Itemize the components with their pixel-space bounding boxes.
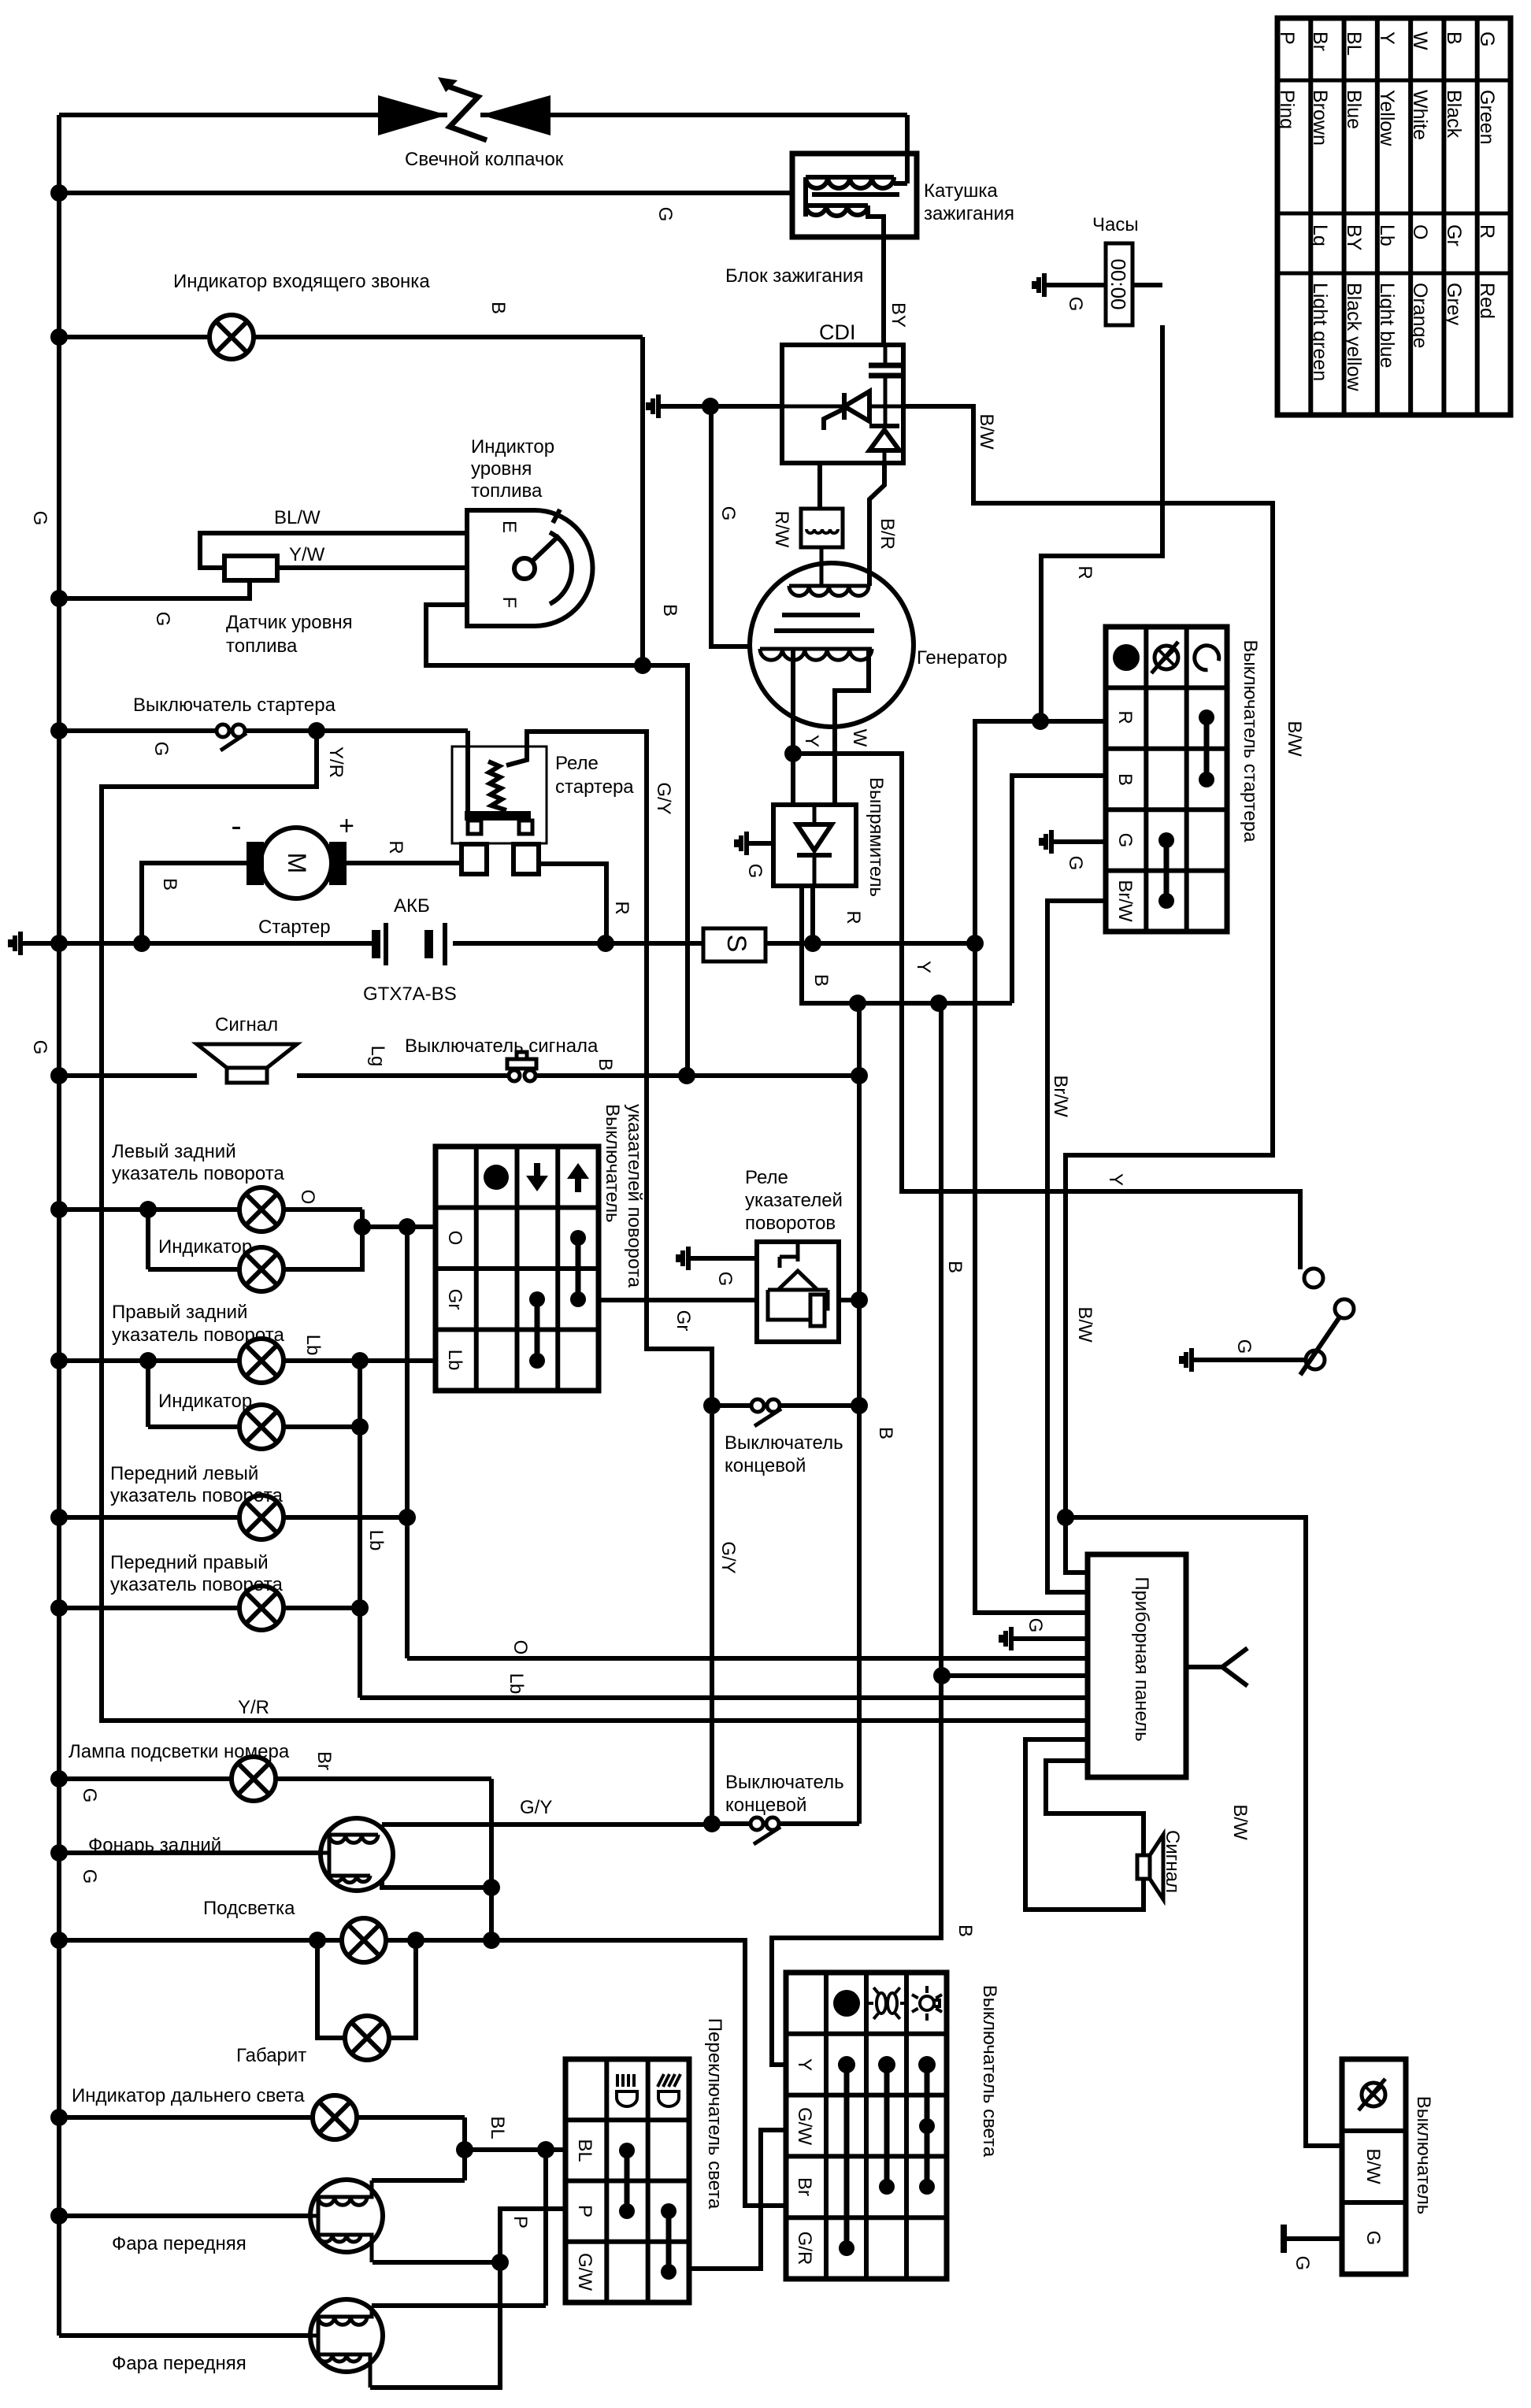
svg-text:Lb: Lb: [302, 1335, 324, 1356]
svg-text:Grey: Grey: [1443, 283, 1465, 326]
svg-text:Y/R: Y/R: [238, 1697, 269, 1718]
svg-text:уровня: уровня: [471, 458, 532, 480]
svg-text:R: R: [1114, 710, 1136, 724]
svg-text:Индиктор: Индиктор: [471, 436, 554, 458]
svg-text:R: R: [843, 910, 864, 924]
svg-text:Blue: Blue: [1343, 90, 1365, 129]
svg-text:G: G: [1065, 856, 1086, 871]
svg-text:BY: BY: [888, 302, 909, 328]
svg-text:Переключатель света: Переключатель света: [704, 2018, 725, 2210]
svg-text:указателей: указателей: [745, 1190, 843, 1211]
svg-text:G/Y: G/Y: [520, 1797, 552, 1818]
svg-text:G: G: [1065, 297, 1086, 312]
svg-text:Передний правый: Передний правый: [110, 1552, 269, 1573]
svg-text:указатель поворота: указатель поворота: [112, 1324, 284, 1346]
svg-text:Green: Green: [1476, 90, 1498, 144]
svg-text:Br: Br: [794, 2177, 815, 2196]
svg-text:R: R: [1476, 224, 1498, 239]
svg-text:Выпрямитель: Выпрямитель: [866, 777, 887, 897]
svg-text:G: G: [29, 1040, 50, 1055]
svg-text:Лампа подсветки номера: Лампа подсветки номера: [69, 1741, 290, 1762]
svg-text:Y/R: Y/R: [325, 746, 347, 778]
svg-text:Индикатор входящего звонка: Индикатор входящего звонка: [173, 271, 430, 292]
svg-text:концевой: концевой: [725, 1455, 806, 1476]
svg-text:Y: Y: [1376, 31, 1398, 45]
svg-text:Выключатель: Выключатель: [725, 1432, 843, 1454]
svg-text:Lb: Lb: [506, 1673, 527, 1695]
svg-text:BL: BL: [487, 2116, 508, 2139]
svg-text:Фонарь задний: Фонарь задний: [88, 1835, 221, 1856]
svg-text:Реле: Реле: [555, 753, 599, 774]
svg-text:G: G: [1476, 31, 1498, 46]
svg-text:Левый задний: Левый задний: [112, 1141, 236, 1162]
svg-text:R: R: [611, 901, 632, 914]
svg-text:Y: Y: [794, 2058, 815, 2071]
svg-text:G: G: [717, 506, 739, 521]
svg-text:Gr: Gr: [444, 1289, 465, 1310]
svg-text:Br/W: Br/W: [1050, 1075, 1071, 1117]
svg-text:B: B: [875, 1427, 896, 1439]
svg-text:G: G: [1292, 2256, 1313, 2271]
svg-text:Подсветка: Подсветка: [203, 1898, 295, 1919]
svg-text:BL: BL: [1343, 31, 1365, 56]
svg-text:GTX7A-BS: GTX7A-BS: [363, 984, 457, 1005]
svg-text:Light green: Light green: [1309, 283, 1331, 381]
svg-text:Y: Y: [913, 961, 934, 973]
svg-text:Фара передняя: Фара передняя: [112, 2353, 247, 2374]
svg-text:указатель поворота: указатель поворота: [112, 1163, 284, 1184]
svg-text:Br: Br: [1309, 31, 1331, 51]
svg-text:G: G: [744, 864, 765, 879]
svg-text:Выключатель: Выключатель: [1413, 2096, 1434, 2215]
svg-text:Red: Red: [1476, 283, 1498, 319]
svg-text:Выключатель света: Выключатель света: [979, 1985, 1000, 2158]
svg-text:G: G: [654, 207, 676, 222]
svg-text:Катушка: Катушка: [924, 180, 998, 202]
svg-text:S: S: [721, 935, 751, 953]
svg-text:G: G: [1025, 1618, 1046, 1633]
svg-text:W: W: [849, 729, 870, 747]
svg-text:G: G: [150, 742, 172, 757]
svg-text:M: M: [283, 853, 311, 874]
svg-text:B: B: [1443, 31, 1465, 45]
svg-text:Black yellow: Black yellow: [1343, 283, 1365, 391]
svg-text:00:00: 00:00: [1107, 258, 1130, 309]
svg-text:White: White: [1409, 90, 1431, 140]
svg-text:O: O: [1409, 224, 1431, 239]
svg-text:G: G: [79, 1788, 100, 1803]
svg-text:Y: Y: [801, 735, 822, 747]
svg-text:Фара передняя: Фара передняя: [112, 2233, 247, 2254]
svg-text:Lg: Lg: [1309, 224, 1331, 246]
svg-text:стартера: стартера: [555, 776, 634, 798]
svg-text:Orange: Orange: [1409, 283, 1431, 348]
svg-text:Lb: Lb: [365, 1530, 387, 1551]
svg-text:CDI: CDI: [819, 320, 856, 344]
svg-text:B: B: [159, 878, 180, 891]
svg-text:B/W: B/W: [1362, 2148, 1384, 2184]
svg-text:B: B: [955, 1925, 976, 1937]
svg-text:Br/W: Br/W: [1114, 880, 1136, 922]
svg-text:Y/W: Y/W: [289, 544, 325, 565]
svg-text:Сигнал: Сигнал: [1162, 1830, 1183, 1893]
svg-text:+: +: [339, 811, 354, 841]
svg-text:Индикатор дальнего света: Индикатор дальнего света: [72, 2085, 305, 2106]
svg-text:указатель поворота: указатель поворота: [110, 1574, 283, 1595]
svg-text:R: R: [1074, 565, 1095, 579]
svg-text:R/W: R/W: [771, 511, 792, 548]
svg-text:АКБ: АКБ: [394, 895, 430, 917]
svg-text:Lb: Lb: [444, 1350, 465, 1371]
svg-text:B: B: [595, 1058, 616, 1071]
svg-text:топлива: топлива: [226, 635, 298, 657]
svg-text:G: G: [152, 612, 173, 627]
svg-text:O: O: [510, 1640, 531, 1655]
svg-text:G: G: [1114, 833, 1136, 848]
svg-text:поворотов: поворотов: [745, 1213, 836, 1234]
svg-text:Датчик уровня: Датчик уровня: [226, 612, 353, 633]
svg-text:Yellow: Yellow: [1376, 90, 1398, 146]
svg-text:O: O: [444, 1231, 465, 1246]
svg-text:G: G: [79, 1869, 100, 1884]
svg-text:B: B: [487, 302, 509, 314]
svg-text:Габарит: Габарит: [236, 2045, 306, 2066]
svg-text:P: P: [510, 2216, 531, 2228]
svg-text:F: F: [499, 597, 520, 609]
svg-text:Часы: Часы: [1092, 214, 1139, 235]
svg-text:G: G: [29, 511, 50, 526]
svg-text:Brown: Brown: [1309, 90, 1331, 146]
svg-text:Выключатель: Выключатель: [602, 1104, 623, 1223]
svg-text:Y: Y: [1105, 1173, 1126, 1186]
svg-text:B: B: [659, 604, 680, 617]
svg-text:Блок зажигания: Блок зажигания: [725, 265, 863, 287]
svg-text:Br: Br: [313, 1751, 335, 1770]
svg-text:BY: BY: [1343, 224, 1365, 251]
svg-text:Передний левый: Передний левый: [110, 1463, 258, 1484]
svg-text:Выключатель сигнала: Выключатель сигнала: [405, 1035, 599, 1057]
svg-text:G/Y: G/Y: [717, 1541, 739, 1573]
svg-text:зажигания: зажигания: [924, 203, 1014, 224]
svg-text:P: P: [1276, 31, 1298, 45]
svg-text:P: P: [574, 2205, 595, 2217]
svg-text:B: B: [944, 1261, 966, 1273]
svg-text:E: E: [499, 520, 520, 533]
svg-text:концевой: концевой: [725, 1795, 806, 1816]
svg-text:B/W: B/W: [976, 413, 997, 450]
svg-text:BL/W: BL/W: [274, 507, 321, 528]
svg-text:Ping: Ping: [1276, 90, 1298, 129]
svg-text:Сигнал: Сигнал: [215, 1014, 278, 1035]
svg-text:B: B: [1114, 773, 1136, 786]
svg-text:B/W: B/W: [1284, 721, 1305, 757]
svg-text:W: W: [1409, 31, 1431, 50]
svg-text:указатель поворота: указатель поворота: [110, 1485, 283, 1506]
svg-text:Выключатель стартера: Выключатель стартера: [1240, 640, 1261, 843]
svg-text:G: G: [714, 1272, 736, 1287]
svg-text:R: R: [385, 840, 406, 854]
svg-text:Правый задний: Правый задний: [112, 1302, 247, 1323]
svg-text:Индикатор: Индикатор: [158, 1236, 252, 1258]
svg-text:-: -: [231, 809, 241, 843]
svg-text:Gr: Gr: [1443, 224, 1465, 246]
svg-text:BL: BL: [574, 2139, 595, 2162]
svg-text:Генератор: Генератор: [917, 647, 1007, 669]
svg-text:G/W: G/W: [794, 2107, 815, 2145]
svg-text:G/W: G/W: [574, 2253, 595, 2291]
svg-text:Свечной колпачок: Свечной колпачок: [405, 149, 564, 170]
svg-text:Стартер: Стартер: [258, 917, 331, 938]
svg-text:указателей поворота: указателей поворота: [624, 1104, 645, 1288]
svg-text:Lb: Lb: [1376, 224, 1398, 246]
svg-text:G/R: G/R: [794, 2232, 815, 2265]
svg-text:O: O: [297, 1190, 318, 1205]
svg-text:B/R: B/R: [877, 518, 898, 550]
svg-text:Gr: Gr: [673, 1310, 694, 1332]
svg-text:Реле: Реле: [745, 1167, 788, 1188]
svg-text:Приборная панель: Приборная панель: [1131, 1576, 1152, 1741]
svg-text:Индикатор: Индикатор: [158, 1391, 252, 1412]
svg-text:Выключатель: Выключатель: [725, 1772, 844, 1793]
svg-text:B/W: B/W: [1074, 1306, 1095, 1343]
svg-text:B/W: B/W: [1229, 1804, 1251, 1840]
svg-text:G: G: [1362, 2231, 1384, 2246]
svg-text:Lg: Lg: [367, 1046, 388, 1067]
svg-text:B: B: [810, 974, 832, 987]
svg-text:Выключатель стартера: Выключатель стартера: [133, 695, 336, 716]
svg-text:топлива: топлива: [471, 480, 543, 502]
svg-text:Light blue: Light blue: [1376, 283, 1398, 368]
svg-text:G: G: [1233, 1339, 1255, 1354]
svg-text:G/Y: G/Y: [653, 782, 674, 814]
svg-text:Black: Black: [1443, 90, 1465, 139]
